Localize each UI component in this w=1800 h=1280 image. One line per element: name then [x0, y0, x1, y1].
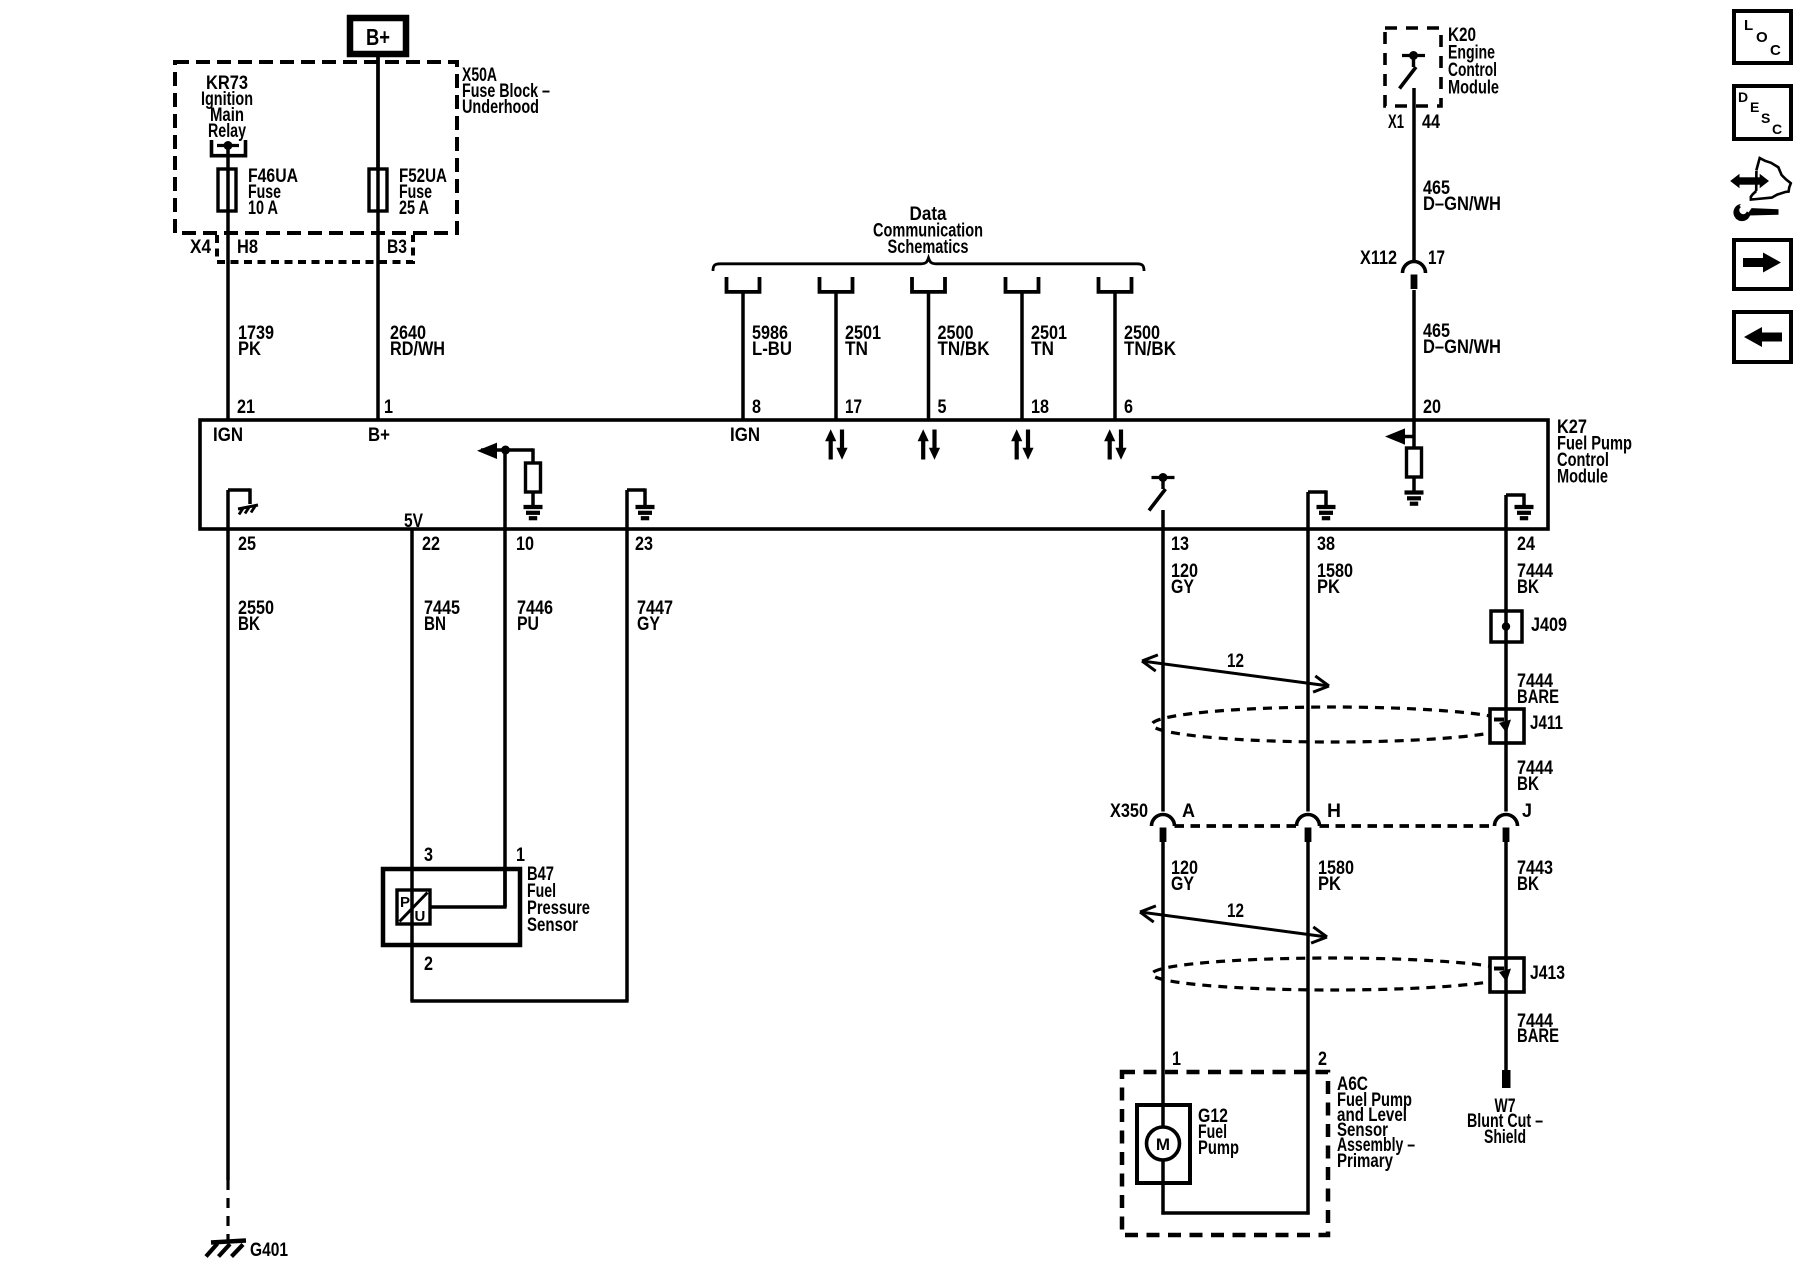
- svg-text:24: 24: [1517, 534, 1535, 555]
- svg-text:22: 22: [422, 534, 440, 555]
- module internal ground at pin 38: [1306, 492, 1310, 529]
- svg-text:RD/WH: RD/WH: [390, 339, 445, 360]
- svg-text:2: 2: [424, 954, 433, 975]
- svg-text:D–GN/WH: D–GN/WH: [1423, 337, 1501, 358]
- connector X350 terminal H: [1297, 815, 1320, 827]
- module internal ground below pin 10 resistor: [524, 505, 543, 509]
- svg-text:X350: X350: [1110, 801, 1148, 822]
- connector X350 terminal J: [1495, 815, 1518, 827]
- blunt cut W7 terminal: [1502, 1070, 1511, 1088]
- connector X112: [1403, 262, 1426, 274]
- svg-text:Underhood: Underhood: [462, 97, 539, 118]
- svg-text:A: A: [1182, 801, 1195, 822]
- svg-text:1: 1: [1172, 1049, 1181, 1070]
- data connector cup at wire 2500 TN/BK: [912, 277, 945, 292]
- fuel pump motor G12 circle M: [1147, 1127, 1180, 1160]
- svg-text:X112: X112: [1360, 248, 1397, 269]
- svg-text:GY: GY: [637, 614, 660, 635]
- sensor internal wire pin 3 through element: [410, 869, 414, 945]
- svg-text:21: 21: [237, 397, 255, 418]
- svg-text:H: H: [1327, 801, 1341, 822]
- wire 1580 PK module to X350 H: [1306, 529, 1310, 812]
- wire motor to assembly pin 2 return: [1161, 1183, 1165, 1215]
- svg-text:PU: PU: [517, 614, 539, 635]
- svg-text:2: 2: [1318, 1049, 1327, 1070]
- svg-text:BK: BK: [1517, 577, 1539, 598]
- wire 7444 BK module to splice J409: [1504, 529, 1508, 611]
- svg-text:BARE: BARE: [1517, 1026, 1559, 1047]
- wire 2640 RD/WH fuse F52UA to module pin 1: [376, 54, 380, 420]
- module internal ground at pin 23: [625, 490, 629, 529]
- ground G401 chassis symbol: [211, 1241, 246, 1243]
- motor internal wire: [1161, 1105, 1165, 1127]
- wire 7444 BARE J413 to W7 blunt cut: [1504, 992, 1508, 1070]
- svg-text:Module: Module: [1448, 78, 1499, 99]
- svg-text:38: 38: [1317, 534, 1335, 555]
- fuse block X50A dashed outline: [175, 62, 457, 233]
- svg-text:BK: BK: [1517, 774, 1539, 795]
- svg-text:17: 17: [845, 397, 862, 418]
- brace over data communication wires: [713, 258, 1144, 271]
- svg-text:12: 12: [1227, 651, 1244, 672]
- svg-text:J411: J411: [1530, 713, 1563, 734]
- data connector cup at wire 5986 L-BU: [727, 277, 760, 292]
- svg-text:TN/BK: TN/BK: [1124, 339, 1176, 360]
- svg-text:D–GN/WH: D–GN/WH: [1423, 194, 1501, 215]
- svg-text:IGN: IGN: [730, 425, 760, 446]
- fuel pressure sensor B47 box: [383, 869, 520, 945]
- svg-text:U: U: [415, 908, 426, 925]
- svg-text:1: 1: [384, 397, 393, 418]
- fuel pump control module K27 box: [200, 420, 1548, 529]
- wire 7447 GY module to sensor pin 2: [625, 529, 629, 1001]
- svg-text:L: L: [1744, 17, 1753, 34]
- module internal chassis ground at pin 25: [226, 490, 230, 529]
- svg-text:B+: B+: [368, 425, 390, 446]
- svg-text:M: M: [1156, 1135, 1170, 1154]
- shield ellipse upper: [1152, 707, 1513, 742]
- module internal resistor at pin 20: [1412, 420, 1416, 448]
- svg-text:BN: BN: [424, 614, 446, 635]
- svg-text:H8: H8: [237, 237, 258, 258]
- svg-text:25: 25: [238, 534, 256, 555]
- svg-text:5V: 5V: [404, 511, 423, 532]
- connector X4 dashed box: [217, 235, 413, 262]
- nav icon LOC: [1734, 11, 1791, 63]
- double arrows serial data pins 17 5 18 6: [829, 440, 833, 460]
- sensor internal wire pin 1 to P/U element: [503, 869, 507, 907]
- svg-text:PK: PK: [238, 339, 261, 360]
- wire 2501 TN to module: [1020, 294, 1024, 421]
- splice J409: [1491, 611, 1522, 642]
- wire 7444 BARE J409 to J411: [1504, 642, 1508, 709]
- svg-text:L-BU: L-BU: [752, 339, 792, 360]
- svg-text:S: S: [1761, 110, 1770, 126]
- module internal ground at pin 24: [1504, 495, 1508, 529]
- svg-text:C: C: [1772, 121, 1782, 137]
- svg-text:23: 23: [635, 534, 653, 555]
- svg-text:BK: BK: [1517, 874, 1539, 895]
- wire 465 D-GN/WH X112 to module pin 20: [1412, 290, 1416, 420]
- svg-text:20: 20: [1423, 397, 1441, 418]
- svg-text:PK: PK: [1318, 874, 1341, 895]
- svg-text:TN: TN: [1031, 339, 1054, 360]
- svg-text:B+: B+: [366, 24, 390, 50]
- wire 2500 TN/BK to module: [1113, 294, 1117, 421]
- svg-text:Primary: Primary: [1337, 1151, 1393, 1172]
- svg-text:J: J: [1522, 801, 1532, 822]
- svg-text:G401: G401: [250, 1240, 288, 1261]
- svg-text:GY: GY: [1171, 874, 1194, 895]
- twisted pair count arrow 12 upper: [1142, 661, 1329, 686]
- wire 2550 BK module to G401: [226, 529, 230, 1180]
- shield ellipse lower: [1152, 958, 1513, 990]
- svg-text:D: D: [1738, 89, 1748, 105]
- svg-text:8: 8: [752, 397, 761, 418]
- svg-text:X4: X4: [190, 237, 211, 258]
- wire 465 D-GN/WH ECM to X112: [1412, 88, 1416, 262]
- svg-text:Relay: Relay: [208, 121, 246, 142]
- P/U sensing element: [397, 890, 430, 924]
- engine control module K20 dashed box: [1385, 28, 1441, 106]
- svg-text:25 A: 25 A: [399, 198, 429, 219]
- svg-text:BK: BK: [238, 614, 260, 635]
- fuse F46UA: [218, 169, 236, 211]
- svg-text:13: 13: [1171, 534, 1189, 555]
- shield splice J411: [1490, 709, 1524, 743]
- wire 2501 TN to module: [834, 294, 838, 421]
- svg-text:BARE: BARE: [1517, 687, 1559, 708]
- svg-text:J409: J409: [1531, 615, 1567, 636]
- module internal 5V reference resistor with arrow at pin 10: [503, 450, 507, 529]
- shield splice J413: [1490, 958, 1524, 992]
- connector X350 terminal A: [1152, 815, 1175, 827]
- wire relay to fuse F46UA: [226, 147, 230, 169]
- data connector cup at wire 2501 TN: [1006, 277, 1039, 292]
- svg-text:J413: J413: [1530, 963, 1565, 984]
- svg-text:Pump: Pump: [1198, 1138, 1239, 1159]
- wire 5986 L-BU to module: [741, 294, 745, 421]
- wire 7446 PU module to sensor pin 1: [503, 529, 507, 907]
- twisted pair count arrow 12 lower: [1140, 912, 1327, 937]
- fuse F52UA: [369, 169, 387, 211]
- wire 1739 PK fuse F46UA to module pin 21: [226, 169, 230, 420]
- svg-text:12: 12: [1227, 901, 1244, 922]
- data connector cup at wire 2500 TN/BK: [1099, 277, 1132, 292]
- svg-text:Module: Module: [1557, 467, 1608, 488]
- fuel pump assembly A6C dashed box: [1122, 1072, 1328, 1235]
- svg-text:6: 6: [1124, 397, 1133, 418]
- nav icon forward arrow: [1734, 240, 1791, 289]
- wire 120 GY module to X350 A: [1161, 529, 1165, 812]
- svg-text:10: 10: [516, 534, 534, 555]
- svg-text:10 A: 10 A: [248, 198, 278, 219]
- svg-text:X1: X1: [1388, 112, 1404, 133]
- wire 7445 BN module to sensor pin 3: [410, 529, 414, 869]
- svg-text:TN: TN: [845, 339, 868, 360]
- svg-text:18: 18: [1031, 397, 1049, 418]
- svg-text:B3: B3: [387, 237, 407, 258]
- svg-text:C: C: [1770, 42, 1781, 59]
- battery positive feed B+: [350, 18, 406, 54]
- nav icon back arrow: [1734, 312, 1791, 362]
- svg-text:PK: PK: [1317, 577, 1340, 598]
- svg-text:O: O: [1756, 29, 1768, 46]
- wire 120 GY X350 to pump pin 1: [1161, 830, 1165, 1105]
- svg-text:44: 44: [1422, 112, 1440, 133]
- nav icon vehicle with arrows and wrench: [1755, 171, 1758, 191]
- nav icon DESC: [1734, 86, 1791, 139]
- switch inside K20: [1402, 54, 1425, 57]
- wire 7443 BK X350 to splice J413: [1504, 830, 1508, 958]
- data connector cup at wire 2501 TN: [820, 277, 853, 292]
- fuel pump motor G12 box: [1137, 1105, 1190, 1183]
- connector X350 dashed link: [1175, 824, 1297, 828]
- svg-text:1: 1: [516, 845, 525, 866]
- svg-text:E: E: [1750, 99, 1759, 115]
- svg-text:5: 5: [938, 397, 947, 418]
- relay KR73 contact symbol: [212, 140, 246, 156]
- svg-text:IGN: IGN: [213, 425, 243, 446]
- svg-text:Sensor: Sensor: [527, 915, 578, 936]
- module internal ground below pin 20 resistor: [1405, 490, 1424, 494]
- svg-text:Shield: Shield: [1484, 1127, 1526, 1148]
- svg-text:P: P: [400, 894, 410, 911]
- svg-text:17: 17: [1428, 248, 1445, 269]
- wire 1580 PK X350 to pump pin 2: [1306, 830, 1310, 1215]
- wire B+ feed to fuse F52UA: [376, 54, 380, 169]
- svg-text:3: 3: [424, 845, 433, 866]
- svg-text:TN/BK: TN/BK: [938, 339, 990, 360]
- module internal switch at pin 13: [1152, 476, 1175, 479]
- wire 7444 BK J411 to X350 J: [1504, 743, 1508, 812]
- svg-text:Schematics: Schematics: [888, 237, 969, 258]
- svg-text:GY: GY: [1171, 577, 1194, 598]
- wire 2500 TN/BK to module: [927, 294, 931, 421]
